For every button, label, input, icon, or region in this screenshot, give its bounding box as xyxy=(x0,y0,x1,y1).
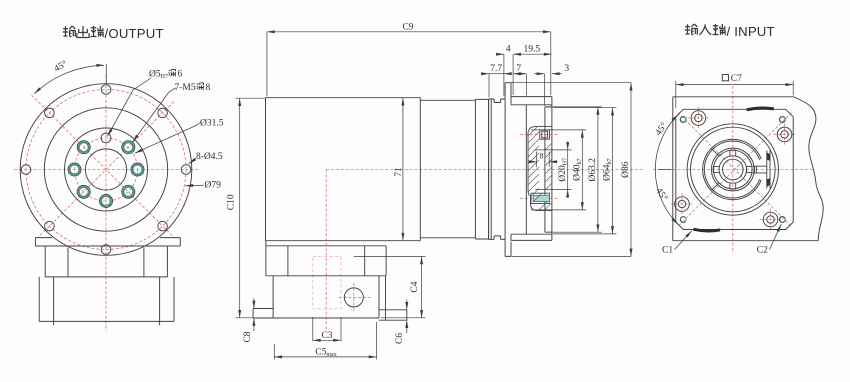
bottom box xyxy=(38,277,40,322)
face recess O63.2 xyxy=(545,107,552,232)
hub circle xyxy=(65,128,148,211)
svg-text:/OUTPUT: /OUTPUT xyxy=(105,26,164,41)
leader O31.5 xyxy=(135,122,201,153)
svg-text:C10: C10 xyxy=(227,194,237,210)
dim C3 xyxy=(313,317,341,341)
O40 xyxy=(531,130,586,210)
leader O5H7 deep6 xyxy=(108,78,152,136)
svg-text:C1: C1 xyxy=(662,245,673,255)
O86 xyxy=(506,83,631,257)
hanzi 输 xyxy=(63,26,76,37)
right tab xyxy=(379,310,407,320)
body outline xyxy=(266,83,552,257)
svg-text:7-M5: 7-M5 xyxy=(175,83,196,93)
center bore circle xyxy=(85,149,126,190)
pilot circles xyxy=(687,124,778,215)
top clamp screw xyxy=(540,130,550,139)
square flange block xyxy=(511,97,552,241)
45deg dim arc left xyxy=(655,115,678,225)
top dims C9 / 4 / 19.5 / 7.7 / 7 / 3 xyxy=(267,32,562,106)
ring C with grooves xyxy=(489,99,506,239)
horizontal centerline xyxy=(14,169,199,171)
svg-text:Ø63.2: Ø63.2 xyxy=(588,158,598,182)
svg-text:C3: C3 xyxy=(321,331,332,341)
svg-text:3: 3 xyxy=(564,64,569,74)
motor mount holes (counterbored) xyxy=(675,111,792,227)
big disk O86 xyxy=(505,83,511,257)
leader C2 xyxy=(770,224,782,249)
svg-text:71: 71 xyxy=(394,167,404,177)
leader 7-M5 deep8 xyxy=(133,88,176,142)
hanzi 出 xyxy=(77,26,89,38)
svg-text:C2: C2 xyxy=(757,245,768,255)
hanzi 入 xyxy=(700,24,712,35)
bottom clamp screw xyxy=(531,193,549,203)
svg-text:Ø86: Ø86 xyxy=(621,161,631,178)
svg-text:6: 6 xyxy=(178,70,183,80)
7 threaded holes M5 (teal ring + black core) on r31.5 xyxy=(68,141,144,208)
dim C5 xyxy=(274,322,376,360)
hole in foot xyxy=(344,288,363,307)
cylinder section xyxy=(420,100,475,238)
hanzi shen (deep) small xyxy=(169,70,176,77)
svg-text:C7: C7 xyxy=(731,74,742,84)
foot main box xyxy=(273,276,379,309)
clamp screw detail right xyxy=(752,151,770,189)
leader C1 xyxy=(675,231,692,250)
lower body strip behind flange xyxy=(35,238,180,326)
thread circle 31.5 xyxy=(75,138,138,201)
mid box xyxy=(44,246,46,277)
hatch lines xyxy=(528,127,552,211)
pin hole O5H7 top xyxy=(101,133,111,143)
inner square flange with chamfered corners xyxy=(676,109,793,229)
red crosses at motor holes xyxy=(671,107,796,231)
outer flange circle xyxy=(20,84,192,256)
svg-text:/ INPUT: / INPUT xyxy=(727,24,775,39)
8 bolt holes r4.8 on r80 xyxy=(21,85,191,255)
svg-text:4: 4 xyxy=(506,45,511,55)
svg-text:8: 8 xyxy=(540,152,544,161)
svg-text:19.5: 19.5 xyxy=(523,45,540,55)
svg-text:Ø31.5: Ø31.5 xyxy=(200,119,224,129)
red axis lines xyxy=(326,134,643,331)
dim 71 xyxy=(402,98,404,241)
title 输出端/OUTPUT (hanzi drawn as strokes) xyxy=(63,26,104,38)
svg-text:C9: C9 xyxy=(402,22,413,32)
main circles xyxy=(20,84,192,256)
leader O79 xyxy=(185,184,203,187)
leader 8-O4.5 xyxy=(189,159,196,164)
hanzi 端 xyxy=(91,26,104,37)
svg-text:7: 7 xyxy=(516,64,521,74)
outer body outline with motor break line xyxy=(673,97,823,241)
boss circle xyxy=(44,108,167,231)
vertical centerline xyxy=(105,76,107,332)
svg-text:C4: C4 xyxy=(410,281,420,292)
dim C8 xyxy=(253,298,255,331)
hidden pink box in foot xyxy=(313,256,341,309)
plate B xyxy=(475,99,488,239)
O20 xyxy=(535,150,572,190)
left tab xyxy=(253,309,273,319)
title 输入端/ INPUT xyxy=(685,24,726,35)
clamp key ticks 135/225 xyxy=(711,148,719,190)
clamp ring arcs with right gap xyxy=(703,139,762,199)
svg-text:7.7: 7.7 xyxy=(490,64,502,74)
45 deg dimension arc xyxy=(34,64,106,94)
dimension: 8 (slot) xyxy=(529,152,558,168)
diagonal 135-315 xyxy=(32,95,174,237)
red centerlines xyxy=(14,76,199,332)
corner teal holes xyxy=(680,117,785,223)
lug rects xyxy=(713,150,752,189)
dim C6 xyxy=(406,300,408,333)
bore circles xyxy=(711,148,754,191)
dim C7 xyxy=(676,81,793,108)
svg-text:C8: C8 xyxy=(243,331,253,342)
svg-text:Ø79: Ø79 xyxy=(205,181,222,191)
cyan screw fill xyxy=(533,195,549,201)
O64 xyxy=(553,108,616,234)
main gear housing xyxy=(266,98,421,241)
bolt circle dia 160 xyxy=(26,90,186,250)
svg-text:8: 8 xyxy=(206,83,211,93)
thick arc slots xyxy=(747,108,774,110)
red centerlines xyxy=(653,86,813,253)
right vertical dim stack xyxy=(506,83,631,257)
O63.2 xyxy=(546,107,602,232)
clamp hub blob with hatch xyxy=(528,127,552,211)
svg-text:C6: C6 xyxy=(395,333,405,344)
diagonal 45-225 xyxy=(38,102,174,238)
dim C10 xyxy=(236,98,273,318)
svg-text:8-Ø4.5: 8-Ø4.5 xyxy=(196,152,223,162)
lower foot structure xyxy=(253,241,407,321)
dim C4 xyxy=(354,256,426,317)
